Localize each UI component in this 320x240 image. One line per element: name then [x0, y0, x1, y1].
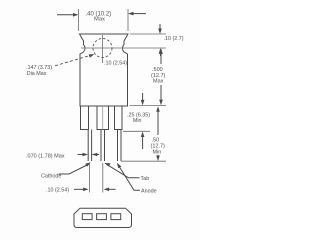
svg-text:Min: Min: [153, 150, 162, 156]
svg-text:Cathode: Cathode: [41, 174, 61, 180]
svg-text:Max: Max: [153, 79, 164, 85]
svg-text:Tab: Tab: [141, 176, 150, 182]
svg-text:Dia Max: Dia Max: [27, 71, 47, 77]
svg-text:Max: Max: [94, 17, 105, 23]
svg-text:.070 (1.78) Max: .070 (1.78) Max: [26, 154, 65, 160]
svg-text:.10 (2.54): .10 (2.54): [104, 61, 127, 67]
svg-text:.10 (2.7): .10 (2.7): [164, 36, 184, 42]
svg-text:Min: Min: [133, 118, 141, 124]
svg-text:.10 (2.54): .10 (2.54): [46, 187, 69, 193]
svg-text:Anode: Anode: [141, 188, 157, 194]
